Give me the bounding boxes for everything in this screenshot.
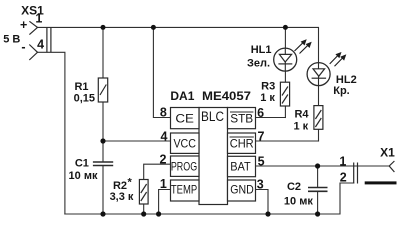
svg-text:3: 3 — [257, 178, 264, 192]
svg-text:STB: STB — [230, 112, 253, 126]
svg-text:VCC: VCC — [173, 136, 196, 150]
resistor R2 — [139, 180, 148, 205]
svg-text:PROG: PROG — [171, 159, 197, 173]
svg-text:1 к: 1 к — [293, 121, 308, 133]
junction dot top rail CE — [151, 25, 156, 30]
wire top rail from XS1 pin1 to HL2 drop — [38, 27, 319, 62]
svg-text:4: 4 — [37, 37, 44, 51]
svg-text:BLC: BLC — [201, 109, 224, 124]
svg-text:2: 2 — [160, 152, 167, 166]
wire BAT pin5 to X1 pin1 — [256, 165, 390, 167]
cell STB — [228, 108, 256, 129]
svg-text:1 к: 1 к — [260, 92, 275, 104]
svg-text:C2: C2 — [287, 181, 301, 193]
svg-text:2: 2 — [340, 170, 347, 184]
svg-text:8: 8 — [160, 106, 167, 120]
LED HL1 — [274, 48, 297, 71]
junction dot C1 bottom — [100, 211, 105, 216]
resistor R4 — [314, 106, 323, 130]
svg-text:7: 7 — [258, 129, 265, 143]
svg-text:1: 1 — [160, 177, 167, 191]
svg-text:-: - — [21, 40, 25, 54]
junction dot VCC branch — [100, 138, 105, 143]
X1 pin 1 contact — [389, 161, 394, 172]
cell BAT — [228, 156, 256, 176]
wire VCC pin4 horizontal — [103, 140, 171, 142]
svg-text:R3: R3 — [261, 80, 275, 92]
svg-text:CHR: CHR — [230, 136, 254, 150]
wire HL2/R4 branch — [318, 86, 320, 106]
wire HL1/R3 branch — [284, 27, 286, 82]
svg-text:1: 1 — [339, 154, 346, 168]
svg-text:DA1: DA1 — [170, 89, 194, 103]
svg-text:10 мк: 10 мк — [284, 196, 313, 208]
wire TEMP pin1 drop — [159, 190, 171, 215]
wire CE pin8 drop — [153, 27, 170, 117]
connector XS1 — [29, 21, 51, 60]
svg-text:10 мк: 10 мк — [69, 170, 98, 182]
junction dot GND bottom — [265, 211, 270, 216]
cell CE — [171, 108, 200, 129]
junction dot C2 bottom — [315, 211, 320, 216]
junction dot R2 bottom — [141, 211, 146, 216]
cell VCC — [171, 133, 200, 153]
svg-text:R4: R4 — [294, 108, 309, 120]
X1 mating lines — [353, 163, 355, 184]
capacitor C2 — [308, 188, 328, 192]
XS1 mating lines — [46, 27, 48, 52]
wire PROG pin2 to R2 — [144, 164, 171, 179]
svg-text:+: + — [20, 18, 27, 32]
wire XS1 pin4 to left rail — [38, 52, 65, 214]
LED HL1 arrows — [295, 40, 311, 53]
svg-text:0,15: 0,15 — [74, 92, 95, 104]
capacitor C1 — [93, 162, 113, 166]
svg-text:5: 5 — [258, 154, 265, 168]
svg-text:GND: GND — [230, 182, 254, 196]
svg-text:6: 6 — [257, 106, 264, 120]
cell CHR — [228, 133, 256, 153]
wire R2 bottom lead — [143, 204, 145, 214]
svg-text:Кр.: Кр. — [333, 85, 350, 97]
LED HL2 arrows — [330, 53, 346, 66]
resistor R1 — [98, 78, 107, 102]
resistor R3 — [280, 82, 289, 106]
svg-text:*: * — [128, 177, 133, 189]
X1 sleeve bar — [365, 181, 397, 184]
junction dot top rail R1 — [101, 25, 106, 30]
junction dot top rail HL1 — [283, 25, 288, 30]
wire C2 leads — [317, 166, 319, 187]
IC body — [199, 108, 228, 205]
XS1 pin 4 contact — [29, 45, 37, 61]
svg-text:CE: CE — [175, 112, 194, 126]
LED HL2 — [307, 63, 330, 86]
cell PROG — [171, 156, 200, 176]
wire CHR pin7 horizontal — [256, 140, 319, 142]
svg-text:3,3 к: 3,3 к — [110, 191, 134, 203]
svg-text:C1: C1 — [75, 157, 89, 169]
IC DA1 ME4057 — [171, 108, 256, 205]
wire bottom rail — [65, 183, 354, 214]
connector X1 — [354, 161, 395, 184]
svg-text:1: 1 — [35, 11, 42, 25]
XS1 pin 1 contact — [29, 21, 37, 34]
svg-text:BAT: BAT — [230, 160, 251, 174]
svg-text:5 В: 5 В — [3, 34, 20, 46]
wire STB pin6 horizontal — [256, 117, 286, 119]
svg-text:4: 4 — [161, 129, 168, 143]
junction dot TEMP bottom — [156, 211, 161, 216]
svg-text:HL1: HL1 — [251, 44, 272, 56]
svg-text:Зел.: Зел. — [247, 57, 270, 69]
wire R1/C1 branch vertical — [102, 27, 104, 78]
svg-text:ME4057: ME4057 — [202, 89, 251, 103]
junction dot BAT line C2 — [315, 163, 320, 168]
cell GND — [228, 180, 256, 201]
svg-text:X1: X1 — [380, 146, 395, 160]
wire GND pin3 drop — [256, 190, 269, 215]
svg-text:TEMP: TEMP — [171, 182, 197, 196]
cell TEMP — [171, 180, 200, 201]
